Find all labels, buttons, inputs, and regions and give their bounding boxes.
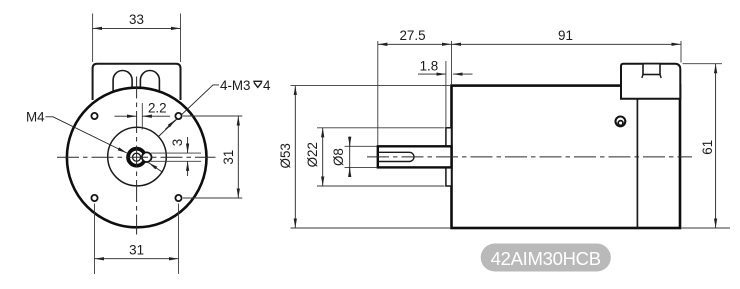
M4 thread circle bbox=[133, 153, 141, 161]
horizontal centerline front view bbox=[57, 156, 216, 158]
connector notch bbox=[643, 64, 660, 75]
svg-text:31: 31 bbox=[221, 150, 236, 165]
svg-text:42AIM30HCB: 42AIM30HCB bbox=[491, 248, 601, 269]
dim 31 bottom line bbox=[95, 258, 179, 260]
M4 leader bbox=[46, 117, 127, 153]
dim 2.2 arrows bbox=[115, 115, 137, 117]
notch feet bbox=[642, 75, 643, 79]
depth symbol bbox=[253, 81, 262, 87]
dim 3 arrows bbox=[187, 137, 189, 153]
svg-text:33: 33 bbox=[129, 12, 144, 27]
shaft flat slot bbox=[378, 152, 414, 161]
svg-text:4-M3: 4-M3 bbox=[220, 78, 251, 93]
dim 31 bottom extension lines bbox=[95, 204, 179, 275]
dim Dia8 extension lines bbox=[345, 146, 377, 167]
dim Dia8 line and outside arrows bbox=[349, 137, 351, 174]
terminal block (top cover tab) bbox=[93, 64, 181, 100]
dim 1.8 arrows bbox=[418, 73, 446, 75]
shaft ring (thick) bbox=[128, 149, 145, 166]
4-M3 leader arrow bbox=[165, 120, 175, 130]
svg-text:31: 31 bbox=[129, 243, 144, 258]
dim 2.2 extension line bbox=[141, 103, 143, 130]
motor body bbox=[452, 86, 681, 228]
dim Dia53 extension lines bbox=[291, 86, 451, 228]
bolt hole top-right bbox=[175, 113, 181, 119]
dim 61 line bbox=[715, 64, 717, 228]
screw head bbox=[616, 117, 626, 127]
shaft bbox=[378, 146, 452, 167]
end cap line bbox=[636, 99, 638, 228]
bolt hole top-left bbox=[91, 113, 97, 119]
model label bbox=[481, 244, 611, 272]
4-M3 leader bbox=[159, 85, 220, 137]
dim 61 extension lines bbox=[682, 64, 731, 228]
svg-text:3: 3 bbox=[170, 139, 185, 146]
svg-text:1.8: 1.8 bbox=[420, 58, 439, 73]
bolt hole bottom-right bbox=[175, 195, 181, 201]
svg-text:Ø8: Ø8 bbox=[331, 148, 346, 166]
dim Dia22 extension lines bbox=[317, 128, 445, 186]
bolt hole bottom-left bbox=[91, 195, 97, 201]
set screw circle bbox=[142, 152, 152, 162]
dim 1.8 extension line bbox=[445, 61, 447, 127]
svg-text:61: 61 bbox=[700, 140, 715, 155]
svg-text:M4: M4 bbox=[26, 109, 45, 124]
dim 31 right extension lines bbox=[183, 116, 242, 198]
svg-text:Ø22: Ø22 bbox=[305, 142, 320, 167]
dim 3 extension lines bbox=[151, 153, 201, 161]
M4 opposite arrow bbox=[149, 163, 163, 173]
dim 27.5 / 91 extension lines bbox=[378, 41, 681, 145]
terminal U left bbox=[113, 70, 132, 94]
dim 27.5 line bbox=[378, 43, 452, 45]
dim Dia22 line bbox=[322, 128, 324, 186]
side view centerline bbox=[367, 156, 692, 158]
svg-text:2.2: 2.2 bbox=[148, 101, 167, 116]
pilot circle (boss dia) bbox=[108, 127, 167, 186]
svg-text:27.5: 27.5 bbox=[399, 28, 425, 43]
connector block side view bbox=[621, 64, 680, 99]
dim 33 extension lines bbox=[93, 14, 181, 63]
dim 31 right line bbox=[237, 116, 239, 198]
pilot boss bbox=[446, 128, 452, 186]
dim 33 line bbox=[93, 27, 181, 29]
terminal U right bbox=[140, 71, 159, 94]
motor body outer circle bbox=[67, 88, 207, 228]
svg-text:Ø53: Ø53 bbox=[278, 143, 293, 168]
svg-text:91: 91 bbox=[558, 28, 573, 43]
svg-text:4: 4 bbox=[263, 78, 271, 93]
vertical centerline front view bbox=[136, 77, 138, 235]
dim 91 line bbox=[452, 43, 682, 45]
dim Dia53 line bbox=[294, 86, 296, 228]
